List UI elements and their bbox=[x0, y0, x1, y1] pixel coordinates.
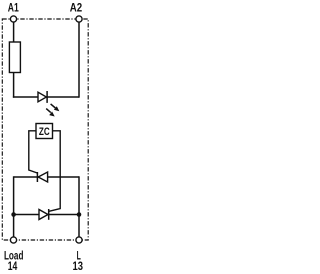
svg-text:A1: A1 bbox=[8, 0, 19, 14]
LED D1 bbox=[38, 91, 47, 103]
wire LED row horizontal bbox=[13, 96, 79, 98]
wire ZC left pin to gate of upper SCR bbox=[29, 131, 38, 173]
svg-text:14: 14 bbox=[8, 259, 18, 273]
junction left bbox=[11, 212, 16, 217]
svg-text:A2: A2 bbox=[70, 0, 83, 14]
zero-crossing unit ZC bbox=[36, 124, 53, 139]
LED light arrow 2 bbox=[46, 109, 55, 117]
wire upper SCR row bbox=[14, 176, 79, 178]
resistor bbox=[9, 42, 20, 73]
wire lower SCR row bbox=[14, 214, 79, 216]
wire A1 down to resistor bbox=[13, 22, 15, 42]
svg-text:ZC: ZC bbox=[39, 126, 50, 138]
wire right output rail bbox=[78, 176, 80, 237]
LED light arrow 1 bbox=[51, 104, 60, 111]
thyristor upper (points left) bbox=[37, 172, 47, 182]
svg-text:13: 13 bbox=[73, 259, 84, 273]
wire ZC right pin to gate of lower SCR bbox=[49, 131, 60, 212]
wire A2 down bbox=[78, 22, 80, 98]
terminal A2 bbox=[76, 16, 82, 22]
enclosure dashed border bbox=[2, 19, 88, 240]
thyristor lower (points right) bbox=[39, 209, 49, 220]
terminal 14 (Load) bbox=[10, 237, 16, 243]
terminal 13 (L) bbox=[76, 237, 82, 243]
wire resistor to LED row bbox=[13, 73, 15, 98]
wire left output rail bbox=[13, 176, 15, 237]
terminal A1 bbox=[10, 16, 16, 22]
junction right bbox=[77, 212, 82, 217]
